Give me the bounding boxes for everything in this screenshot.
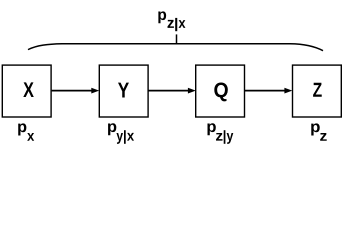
label p_z|y : subscript z	[216, 133, 223, 141]
arrow Q to Z	[245, 90, 286, 92]
label p_z|y : subscript y	[227, 133, 234, 144]
arrowhead X to Y	[91, 88, 99, 94]
arrowhead Q to Z	[284, 88, 292, 94]
label p_z|x : conditioning bar	[175, 18, 177, 31]
label p_x : p	[18, 123, 26, 135]
node Q box	[196, 65, 245, 117]
label p_z : subscript z	[320, 133, 327, 141]
arrowhead Y to Q	[188, 88, 196, 94]
node Q letter	[214, 83, 227, 102]
label p_z|x : subscript x	[179, 20, 186, 28]
label p_y|x : subscript y	[116, 133, 123, 144]
node X box	[2, 65, 51, 117]
label p_y|x : conditioning bar	[124, 130, 126, 144]
label p_z|x : p	[158, 11, 166, 23]
label p_z|y : p	[207, 123, 215, 135]
node X letter	[23, 82, 34, 97]
arrow X to Y	[52, 90, 93, 92]
node Y box	[99, 65, 148, 117]
node Z box	[293, 65, 342, 117]
arrow Y to Q	[148, 90, 189, 92]
brace center tick	[176, 34, 178, 43]
label p_y|x : subscript x	[127, 133, 134, 141]
brace spanning the chain (scope of p_z|x)	[28, 44, 323, 51]
label p_y|x : p	[108, 123, 116, 135]
label p_z|x : subscript z	[168, 20, 174, 28]
node Y letter	[118, 83, 129, 98]
label p_z|y : conditioning bar	[224, 130, 226, 144]
label p_x : subscript x	[27, 133, 34, 141]
label p_z : p	[311, 123, 320, 135]
node Z letter	[313, 83, 322, 97]
